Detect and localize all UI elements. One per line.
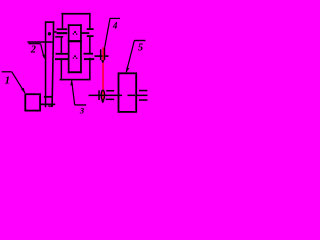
shaft II (right vertical) segment 1 (89, 13, 91, 30)
gear bar L3 lower-left mesh (56, 53, 69, 55)
drum shaft segment 2 (inside box) (128, 95, 136, 97)
svg-text:3: 3 (79, 106, 85, 116)
drum bearing left top bar (106, 90, 114, 92)
label 4 shelf (110, 18, 120, 19)
gear bar R5 lower-right mesh (84, 58, 94, 60)
shaft II (right vertical) segment 3 (89, 58, 91, 79)
stub from pulley to gear L2 (53, 31, 56, 33)
label 3 leader (72, 80, 75, 105)
label 1 leader (12, 72, 25, 93)
drum bearing left bottom bar (106, 99, 114, 101)
drum shaft segment 3 (right stub) (137, 95, 148, 97)
gearbox bottom horizontal line (60, 79, 91, 81)
mark inside upper housing (74, 31, 76, 33)
gear bar R3 upper-right mesh (87, 35, 94, 37)
belt left line / pulley left edge (45, 21, 47, 107)
red centerline (102, 47, 103, 100)
shaft I (left vertical) lower segment (61, 58, 63, 80)
shaft I (left vertical) upper segment (62, 13, 64, 30)
label 2 shelf (29, 43, 41, 44)
belt right line (52, 31, 53, 107)
label 2 leader (41, 44, 44, 56)
gear bar R2 on housing right edge (81, 32, 89, 34)
drum bearing right bottom bar (139, 99, 147, 101)
housing rect bottom edge (68, 71, 82, 73)
housing rect middle divider (68, 40, 82, 42)
gear bar L2 upper-left mesh (57, 32, 68, 34)
arrowhead below coupling (101, 60, 105, 63)
gear bar L4 lower-left mesh (55, 58, 69, 60)
label 5 shelf (134, 40, 145, 41)
label 4 leader (105, 18, 110, 47)
label 1 shelf (2, 71, 12, 72)
gear bar R4 lower-right mesh (84, 53, 94, 55)
svg-text:5: 5 (138, 42, 143, 53)
drum bearing right top bar (139, 90, 147, 92)
gearbox housing top bracket horizontal (61, 13, 90, 15)
motor pulley (44, 96, 53, 98)
gear bar L1 upper-left mesh (57, 28, 68, 30)
motor shaft stub (40, 104, 55, 106)
label 3 shelf (75, 104, 87, 105)
coupling shaft top right (95, 55, 109, 57)
input shaft horizontal (27, 41, 53, 43)
coupling bar B (104, 47, 106, 60)
lower-left shaft upper segment (61, 37, 63, 54)
housing rect top edge (68, 24, 82, 26)
mark inside lower housing (74, 55, 76, 57)
drum shaft segment 1 (89, 95, 122, 97)
gear bar R1 upper-right mesh (87, 28, 94, 30)
arrowhead above drum shaft (101, 100, 105, 103)
junction dot on belt (48, 32, 51, 35)
svg-text:2: 2 (30, 44, 36, 55)
coupling bar left of oval (98, 90, 100, 100)
label 1 arrowhead (21, 88, 25, 93)
elastic coupling oval (101, 90, 105, 100)
housing rect left edge (68, 24, 70, 73)
drum box (119, 73, 137, 112)
label 3 arrowhead (70, 80, 73, 85)
driven pulley right edge (53, 21, 55, 31)
label 5 arrowhead (126, 67, 129, 72)
label 2 arrowhead (42, 55, 45, 60)
motor box (25, 94, 40, 110)
svg-text:1: 1 (5, 74, 11, 86)
label 5 leader (126, 41, 134, 73)
shaft II (right vertical) segment 2 (89, 36, 91, 54)
coupling bar A (100, 49, 102, 60)
driven pulley top bar (45, 21, 54, 23)
housing rect right edge (80, 24, 82, 73)
svg-text:4: 4 (112, 21, 118, 31)
gear bar A2b top of lower-left shaft (55, 36, 63, 38)
